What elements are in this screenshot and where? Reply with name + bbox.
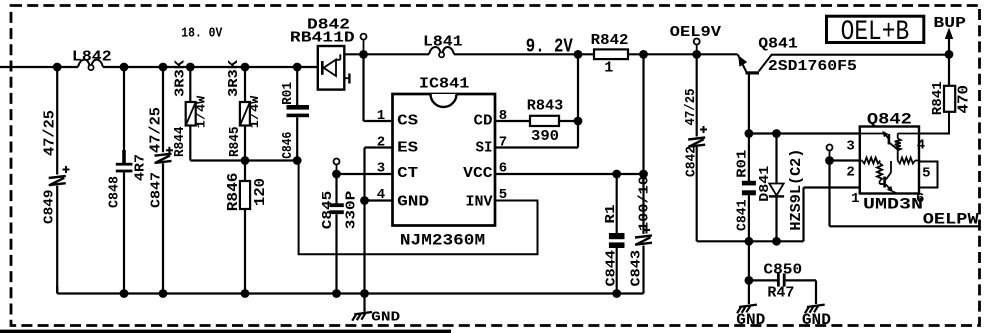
svg-text:C850: C850 (763, 261, 802, 278)
svg-text:3: 3 (377, 161, 385, 177)
svg-text:INV: INV (466, 194, 493, 211)
svg-text:5: 5 (499, 187, 507, 203)
svg-text:100/10: 100/10 (637, 176, 653, 231)
svg-text:1: 1 (604, 59, 613, 76)
svg-text:CT: CT (397, 165, 418, 182)
svg-text:IC841: IC841 (419, 76, 469, 93)
svg-text:120: 120 (252, 178, 269, 206)
svg-text:6: 6 (499, 161, 507, 177)
svg-text:4: 4 (377, 187, 385, 203)
svg-text:OELPW: OELPW (923, 211, 979, 229)
svg-text:8: 8 (499, 108, 507, 124)
svg-text:C846: C846 (280, 132, 296, 159)
svg-text:1: 1 (851, 191, 859, 207)
svg-text:C848: C848 (107, 176, 123, 208)
svg-text:1/4W: 1/4W (195, 95, 209, 128)
svg-text:1/4W: 1/4W (248, 95, 262, 128)
svg-text:BUP: BUP (933, 15, 966, 32)
svg-text:GND: GND (397, 194, 429, 211)
svg-text:C842: C842 (684, 146, 700, 177)
svg-text:R846: R846 (225, 173, 242, 212)
svg-text:C849: C849 (42, 190, 58, 225)
svg-text:VCC: VCC (463, 165, 492, 182)
svg-text:390: 390 (531, 128, 559, 145)
svg-text:L842: L842 (72, 49, 112, 66)
svg-text:RB411D: RB411D (290, 29, 355, 46)
svg-text:CD: CD (474, 113, 493, 130)
svg-text:470: 470 (956, 85, 973, 114)
svg-text:ES: ES (397, 140, 418, 157)
svg-text:C841: C841 (735, 200, 751, 232)
svg-text:NJM2360M: NJM2360M (400, 232, 485, 250)
svg-text:47/25: 47/25 (683, 89, 699, 126)
svg-text:R841: R841 (930, 81, 946, 115)
svg-text:GND: GND (371, 310, 400, 326)
svg-text:4R7: 4R7 (133, 154, 149, 181)
svg-text:CS: CS (397, 113, 418, 130)
svg-text:2: 2 (846, 165, 854, 181)
svg-text:OEL+B: OEL+B (841, 17, 910, 48)
svg-text:C845: C845 (320, 191, 336, 230)
svg-text:UMD3N: UMD3N (863, 196, 923, 214)
svg-text:47/25: 47/25 (42, 110, 59, 156)
svg-text:330P: 330P (344, 191, 360, 230)
svg-text:3R3K: 3R3K (226, 59, 242, 97)
svg-text:3: 3 (846, 139, 854, 155)
svg-text:R01: R01 (280, 82, 296, 105)
svg-text:R1: R1 (603, 205, 619, 224)
svg-text:R842: R842 (591, 32, 629, 49)
svg-text:18. 0V: 18. 0V (181, 26, 222, 42)
svg-text:47/25: 47/25 (148, 107, 165, 153)
svg-text:7: 7 (499, 135, 507, 151)
svg-text:L841: L841 (423, 34, 463, 51)
svg-text:Q841: Q841 (758, 36, 798, 53)
svg-text:R843: R843 (527, 98, 564, 115)
svg-text:Q842: Q842 (867, 111, 912, 129)
svg-text:2: 2 (377, 135, 385, 151)
svg-text:9. 2V: 9. 2V (526, 36, 573, 58)
svg-text:R47: R47 (767, 285, 794, 302)
svg-text:C844: C844 (604, 250, 620, 287)
svg-text:R844: R844 (172, 127, 188, 158)
svg-text:2SD1760F5: 2SD1760F5 (768, 58, 857, 75)
svg-text:3R3K: 3R3K (173, 59, 189, 97)
svg-text:6: 6 (916, 191, 924, 207)
svg-text:5: 5 (922, 166, 930, 182)
svg-text:R01: R01 (735, 150, 751, 178)
svg-text:4: 4 (917, 137, 925, 153)
svg-text:R845: R845 (227, 127, 243, 158)
svg-text:1: 1 (377, 108, 385, 124)
svg-text:D841: D841 (757, 166, 773, 202)
svg-text:HZS9L(C2): HZS9L(C2) (788, 149, 805, 231)
svg-text:C843: C843 (628, 250, 644, 287)
svg-text:SI: SI (476, 140, 493, 157)
svg-text:C847: C847 (149, 172, 165, 208)
svg-text:OEL9V: OEL9V (670, 24, 721, 41)
